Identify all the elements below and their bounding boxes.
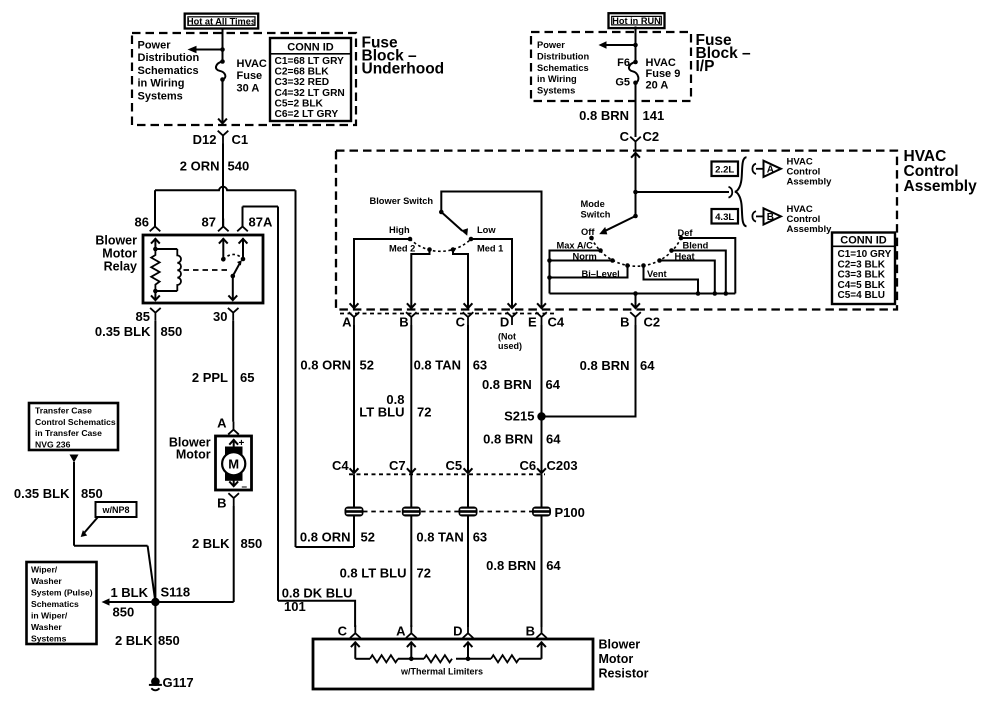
- svg-text:85: 85: [136, 309, 150, 324]
- svg-text:Blower: Blower: [599, 638, 641, 652]
- svg-text:HVAC: HVAC: [237, 58, 267, 70]
- svg-text:I/P: I/P: [696, 58, 715, 75]
- svg-text:A: A: [396, 624, 406, 639]
- svg-text:Hot at All Times: Hot at All Times: [187, 16, 256, 26]
- svg-text:540: 540: [228, 159, 250, 174]
- svg-text:B: B: [399, 315, 408, 330]
- svg-text:Systems: Systems: [31, 634, 67, 644]
- svg-text:Schematics: Schematics: [537, 63, 589, 73]
- svg-text:Off: Off: [581, 227, 595, 237]
- svg-text:NVG 236: NVG 236: [35, 439, 71, 449]
- svg-text:C7: C7: [389, 458, 406, 473]
- svg-text:Assembly: Assembly: [904, 178, 978, 195]
- svg-text:Systems: Systems: [138, 90, 183, 102]
- svg-text:A: A: [217, 415, 227, 430]
- svg-text:52: 52: [361, 529, 375, 544]
- svg-text:in Wiper/: in Wiper/: [31, 611, 68, 621]
- svg-text:C5=2 BLK: C5=2 BLK: [275, 98, 324, 109]
- svg-text:Control Schematics: Control Schematics: [35, 417, 116, 427]
- svg-text:w/Thermal Limiters: w/Thermal Limiters: [400, 667, 483, 677]
- svg-text:Vent: Vent: [647, 269, 667, 279]
- svg-text:72: 72: [417, 405, 431, 420]
- svg-text:B: B: [620, 315, 629, 330]
- svg-text:64: 64: [546, 377, 561, 392]
- svg-text:Relay: Relay: [104, 260, 137, 274]
- svg-text:Wiper/: Wiper/: [31, 565, 58, 575]
- svg-text:2 PPL: 2 PPL: [192, 370, 228, 385]
- svg-text:64: 64: [640, 358, 655, 373]
- svg-text:B: B: [217, 496, 226, 511]
- svg-text:D: D: [453, 624, 462, 639]
- svg-text:0.8 TAN: 0.8 TAN: [416, 530, 463, 545]
- svg-text:System (Pulse): System (Pulse): [31, 588, 93, 598]
- svg-text:0.35 BLK: 0.35 BLK: [95, 324, 151, 339]
- svg-text:(Not: (Not: [498, 332, 516, 342]
- svg-text:Blend: Blend: [683, 241, 709, 251]
- svg-text:D: D: [500, 315, 509, 330]
- svg-text:Low: Low: [477, 225, 496, 235]
- svg-text:C2=68 BLK: C2=68 BLK: [275, 67, 330, 78]
- svg-text:0.8 LT BLU: 0.8 LT BLU: [340, 565, 407, 580]
- svg-text:Fuse: Fuse: [237, 70, 263, 82]
- svg-text:P100: P100: [555, 505, 585, 520]
- svg-text:Assembly: Assembly: [787, 176, 833, 187]
- svg-text:Motor: Motor: [599, 652, 634, 666]
- svg-text:850: 850: [158, 633, 180, 648]
- svg-text:52: 52: [360, 358, 374, 373]
- svg-text:Med 1: Med 1: [477, 244, 503, 254]
- svg-text:C2: C2: [643, 129, 660, 144]
- svg-text:C2: C2: [644, 315, 661, 330]
- svg-text:C1: C1: [232, 132, 249, 147]
- svg-text:B: B: [767, 212, 774, 223]
- svg-text:2 BLK: 2 BLK: [192, 536, 230, 551]
- svg-text:High: High: [389, 225, 410, 235]
- svg-text:1 BLK: 1 BLK: [110, 585, 148, 600]
- svg-text:Underhood: Underhood: [362, 61, 445, 78]
- svg-text:Motor: Motor: [176, 448, 211, 462]
- svg-text:C: C: [620, 129, 630, 144]
- svg-text:850: 850: [161, 324, 183, 339]
- svg-text:M: M: [228, 456, 239, 471]
- svg-text:63: 63: [473, 530, 487, 545]
- svg-text:2 BLK: 2 BLK: [115, 633, 153, 648]
- svg-text:Def: Def: [678, 228, 694, 238]
- svg-text:Washer: Washer: [31, 622, 62, 632]
- svg-text:C6: C6: [520, 458, 537, 473]
- svg-text:2 ORN: 2 ORN: [180, 159, 220, 174]
- svg-text:Transfer Case: Transfer Case: [35, 406, 92, 416]
- svg-text:850: 850: [113, 605, 135, 620]
- svg-text:Schematics: Schematics: [138, 65, 199, 77]
- svg-text:A: A: [767, 164, 774, 175]
- svg-text:Blower: Blower: [95, 234, 137, 248]
- svg-text:0.8 ORN: 0.8 ORN: [300, 358, 351, 373]
- svg-text:Washer: Washer: [31, 576, 62, 586]
- svg-text:Distribution: Distribution: [138, 52, 200, 64]
- svg-text:in Transfer Case: in Transfer Case: [35, 428, 102, 438]
- svg-text:30: 30: [213, 309, 227, 324]
- svg-text:850: 850: [241, 536, 263, 551]
- svg-text:64: 64: [546, 432, 561, 447]
- svg-text:4.3L: 4.3L: [715, 212, 734, 223]
- svg-text:C4: C4: [332, 458, 349, 473]
- svg-text:0.8 BRN: 0.8 BRN: [579, 108, 629, 123]
- svg-text:B: B: [526, 624, 535, 639]
- svg-text:30 A: 30 A: [237, 82, 260, 94]
- svg-text:72: 72: [417, 565, 431, 580]
- svg-text:G5: G5: [615, 77, 630, 89]
- svg-text:LT BLU: LT BLU: [359, 405, 404, 420]
- svg-text:C: C: [338, 624, 348, 639]
- svg-text:0.35 BLK: 0.35 BLK: [14, 486, 70, 501]
- svg-text:0.8 ORN: 0.8 ORN: [300, 529, 351, 544]
- svg-text:Switch: Switch: [581, 209, 611, 219]
- svg-text:–: –: [242, 482, 248, 493]
- svg-text:C: C: [456, 315, 466, 330]
- svg-text:G117: G117: [163, 675, 194, 690]
- svg-text:E: E: [528, 315, 537, 330]
- svg-text:C1=68 LT GRY: C1=68 LT GRY: [275, 56, 345, 67]
- svg-text:A: A: [342, 315, 352, 330]
- svg-text:Mode: Mode: [581, 199, 605, 209]
- svg-text:0.8 BRN: 0.8 BRN: [580, 358, 630, 373]
- svg-text:0.8 TAN: 0.8 TAN: [414, 358, 461, 373]
- svg-text:0.8 BRN: 0.8 BRN: [483, 432, 533, 447]
- svg-text:Assembly: Assembly: [787, 224, 833, 235]
- svg-text:65: 65: [240, 370, 254, 385]
- svg-text:63: 63: [473, 358, 487, 373]
- svg-text:850: 850: [81, 486, 103, 501]
- svg-text:64: 64: [546, 558, 561, 573]
- svg-text:Power: Power: [537, 40, 565, 50]
- svg-text:CONN ID: CONN ID: [840, 234, 887, 246]
- svg-text:Resistor: Resistor: [599, 666, 649, 680]
- svg-text:141: 141: [643, 108, 665, 123]
- svg-text:in Wiring: in Wiring: [138, 78, 185, 90]
- svg-text:CONN ID: CONN ID: [287, 42, 334, 54]
- svg-text:F6: F6: [617, 57, 630, 69]
- svg-text:D12: D12: [193, 132, 217, 147]
- svg-text:Blower Switch: Blower Switch: [370, 196, 434, 206]
- svg-text:S215: S215: [504, 409, 534, 424]
- svg-text:Schematics: Schematics: [31, 599, 79, 609]
- svg-text:Med 2: Med 2: [389, 244, 415, 254]
- svg-text:S118: S118: [161, 585, 191, 600]
- svg-text:87: 87: [202, 215, 216, 230]
- svg-text:0.8 BRN: 0.8 BRN: [482, 377, 532, 392]
- svg-text:Power: Power: [138, 40, 172, 52]
- svg-text:Max A/C: Max A/C: [557, 241, 594, 251]
- svg-text:86: 86: [135, 215, 149, 230]
- svg-text:101: 101: [284, 599, 306, 614]
- svg-text:C5=4 BLU: C5=4 BLU: [838, 290, 886, 301]
- svg-text:C5: C5: [446, 458, 463, 473]
- svg-text:Hot in RUN: Hot in RUN: [612, 16, 661, 26]
- svg-text:Systems: Systems: [537, 86, 575, 96]
- svg-text:in Wiring: in Wiring: [537, 74, 577, 84]
- svg-text:C4: C4: [548, 315, 565, 330]
- svg-text:C4=32 LT GRN: C4=32 LT GRN: [275, 88, 345, 99]
- svg-text:Distribution: Distribution: [537, 51, 589, 61]
- svg-text:Fuse 9: Fuse 9: [646, 68, 681, 80]
- svg-text:Motor: Motor: [102, 247, 137, 261]
- svg-text:87A: 87A: [249, 215, 273, 230]
- svg-text:2.2L: 2.2L: [715, 164, 734, 175]
- svg-text:C3=32 RED: C3=32 RED: [275, 77, 330, 88]
- svg-text:20 A: 20 A: [646, 79, 669, 91]
- svg-text:HVAC: HVAC: [646, 57, 676, 69]
- svg-text:0.8 BRN: 0.8 BRN: [486, 558, 536, 573]
- svg-text:C6=2 LT GRY: C6=2 LT GRY: [275, 109, 339, 120]
- svg-text:used): used): [498, 341, 522, 351]
- svg-text:C203: C203: [547, 458, 578, 473]
- svg-text:w/NP8: w/NP8: [101, 505, 129, 515]
